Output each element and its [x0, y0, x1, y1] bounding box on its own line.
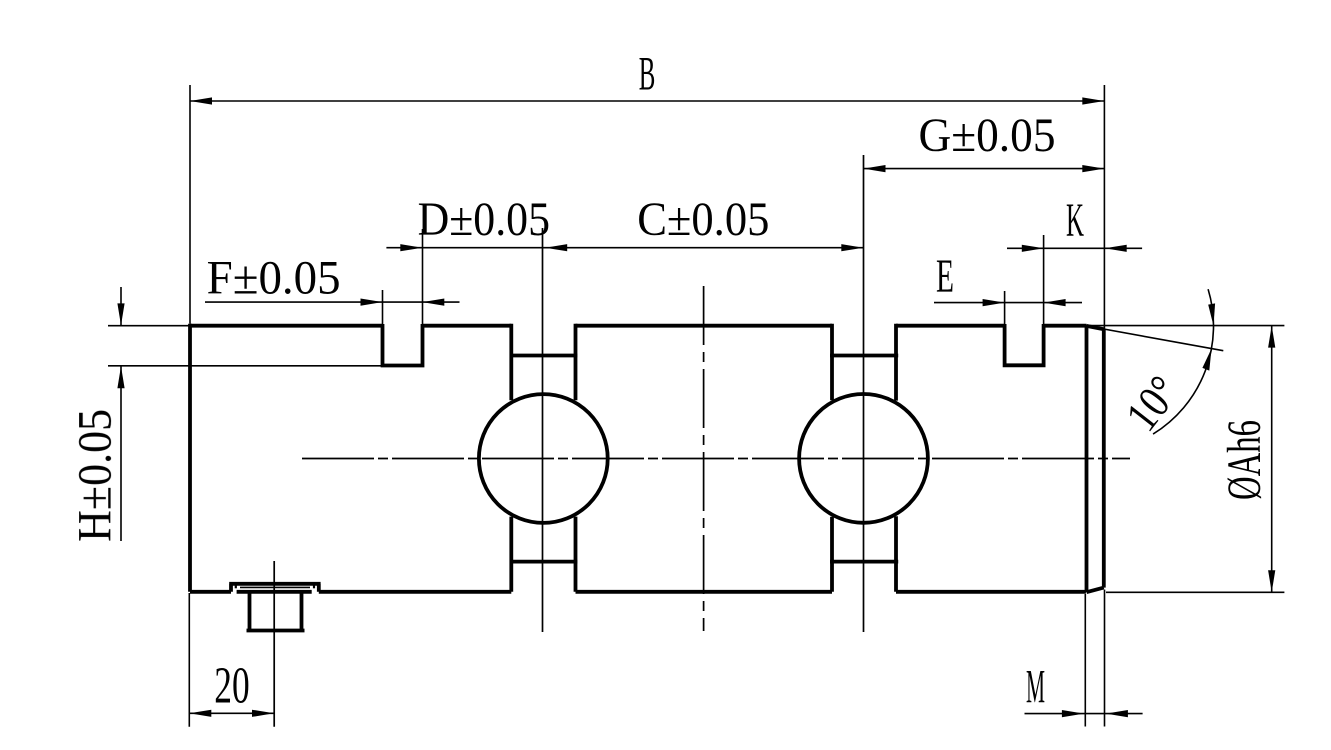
- arrow H outside-top: [117, 303, 124, 325]
- dimension line M: [1025, 713, 1143, 715]
- svg-text:ØAh6: ØAh6: [1218, 420, 1271, 500]
- extension line B/G/K right: [1103, 85, 1105, 329]
- arrow C right: [841, 244, 863, 251]
- arrow 20 right: [252, 710, 274, 717]
- extension line diameter bottom: [1106, 591, 1284, 593]
- dimension line H: [120, 287, 122, 541]
- arrow K outside-left: [1022, 245, 1044, 252]
- dimension line 20: [189, 712, 274, 714]
- dimension line diameter A: [1271, 326, 1273, 593]
- svg-text:F±0.05: F±0.05: [207, 252, 341, 305]
- arrow M outside-left: [1062, 710, 1084, 717]
- dimension line B: [190, 100, 1104, 102]
- svg-text:B: B: [639, 47, 656, 100]
- arrow 20 left: [189, 710, 211, 717]
- svg-text:C±0.05: C±0.05: [637, 193, 769, 246]
- arrow F outside-left: [361, 299, 383, 306]
- centerline vertical bore 2: [863, 155, 865, 632]
- extension line B left: [189, 85, 191, 324]
- bore circle 1: [479, 394, 608, 523]
- svg-text:M: M: [1026, 661, 1045, 714]
- arrow diameter top: [1268, 326, 1275, 348]
- extension line slot E left: [1004, 291, 1006, 324]
- web 1 bottom shelf: [510, 560, 578, 564]
- bottom lip (sealing plate): [229, 584, 320, 592]
- H reference line slot depth: [108, 365, 383, 367]
- boss (screw head) under lip: [247, 592, 305, 631]
- arrow C left: [545, 244, 567, 251]
- svg-text:G±0.05: G±0.05: [919, 109, 1056, 162]
- web 2 vertical edges: [832, 324, 896, 592]
- svg-text:20: 20: [214, 658, 249, 715]
- extension lines M: [1085, 590, 1104, 727]
- svg-text:H±0.05: H±0.05: [69, 409, 122, 542]
- bottom edge segments: [190, 590, 1086, 594]
- web 1 vertical edges: [511, 324, 575, 592]
- 10 degree sloped reference line: [1087, 326, 1224, 351]
- slot F (top left slot): [381, 324, 425, 366]
- lip inner thin edge: [240, 586, 310, 588]
- centerline vertical bore 1: [542, 228, 544, 632]
- svg-text:E: E: [936, 250, 954, 303]
- extension line 20 left: [188, 593, 190, 727]
- arrow M outside-right: [1106, 710, 1128, 717]
- centerline horizontal through bores: [302, 458, 1130, 460]
- left edge of part: [188, 324, 192, 592]
- web 2 bottom shelf: [830, 560, 898, 564]
- web 2 top shelf: [830, 354, 898, 358]
- extension line slot F right / D: [422, 229, 424, 324]
- lip notch left: [235, 584, 237, 589]
- centerline boss / 20 dim extension: [273, 561, 275, 727]
- extension line slot E right / K: [1043, 235, 1045, 324]
- arrow G right: [1082, 165, 1104, 172]
- arrow diameter bottom: [1268, 570, 1275, 592]
- arrow E outside-right: [1044, 299, 1066, 306]
- dimension line E: [934, 302, 1082, 304]
- svg-text:K: K: [1066, 194, 1084, 247]
- svg-text:D±0.05: D±0.05: [418, 193, 550, 246]
- lip notch right: [313, 584, 315, 589]
- dimension line K: [1007, 247, 1142, 249]
- arrow H outside-bottom: [117, 366, 124, 388]
- dimension line F: [205, 301, 460, 303]
- arrow K outside-right: [1105, 245, 1127, 252]
- arrow B right: [1082, 97, 1104, 104]
- centerline vertical middle: [703, 286, 705, 631]
- arrow arc at sloped line: [1202, 349, 1211, 371]
- arrow F outside-right: [422, 299, 444, 306]
- arrow E outside-left: [983, 299, 1005, 306]
- dimension line D C: [386, 247, 863, 249]
- bore circle 2: [799, 394, 928, 523]
- part outline: top edge segments: [190, 324, 1087, 328]
- arrow arc at horizontal: [1208, 303, 1215, 326]
- arrow G left: [864, 165, 886, 172]
- dimension line G: [864, 168, 1105, 170]
- web 1 top shelf: [510, 354, 578, 358]
- extension line diameter top: [1087, 325, 1285, 327]
- arrow B left: [190, 97, 212, 104]
- right end cap: [1087, 326, 1104, 592]
- H reference line top: [108, 325, 190, 327]
- slot E (top right slot): [1003, 324, 1046, 365]
- arrow D outside-left: [400, 244, 422, 251]
- lip seat line: [237, 590, 312, 594]
- dimension arc 10 degrees: [1153, 289, 1213, 434]
- extension line slot F left: [382, 290, 384, 324]
